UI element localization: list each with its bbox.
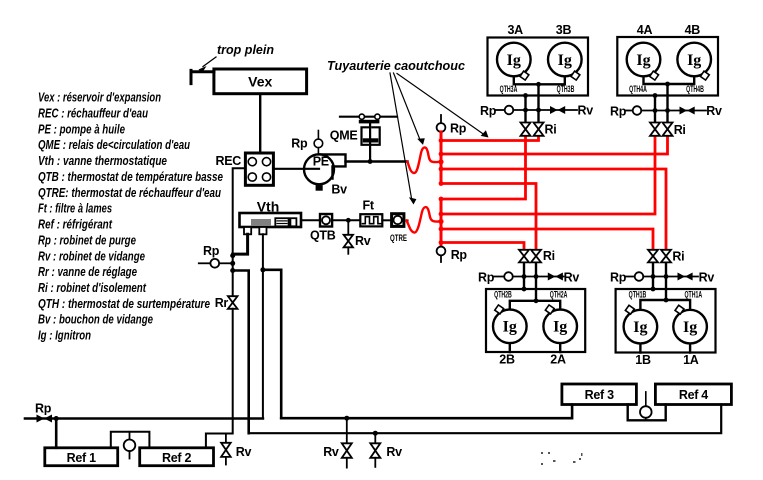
wire Vex to REC [259, 94, 261, 153]
valve Rv group 3 [539, 109, 578, 111]
svg-text:Rv: Rv [578, 104, 594, 118]
reservoir Vex [214, 69, 307, 94]
valve Rv group 4 [668, 110, 707, 112]
svg-text:Rv: Rv [323, 445, 339, 459]
wire REC left down [233, 168, 246, 296]
svg-text:Rp: Rp [291, 137, 308, 151]
ignitron 1A [673, 310, 707, 344]
ignitron 2A [543, 310, 577, 344]
svg-text:Ri: Ri [674, 123, 686, 137]
pump between Ref3 Ref4 [628, 405, 666, 421]
refrigerant Ref 3 [562, 384, 637, 405]
svg-text:QTB: QTB [310, 229, 336, 243]
pipe branch 8 [441, 243, 524, 250]
valve Ri group 2 left [519, 250, 529, 263]
svg-text:Ref 2: Ref 2 [162, 451, 191, 465]
node rail B Rv junction [344, 416, 349, 421]
thermostat QTRE [392, 214, 404, 227]
svg-text:Ig: Ig [633, 319, 647, 336]
refrigerant Ref 1 [45, 448, 118, 466]
rail B drain to Ref3 [281, 405, 572, 419]
wire drain jog A [233, 271, 249, 434]
svg-text:1A: 1A [683, 353, 699, 367]
wire QTB to Ft [332, 219, 360, 221]
wire Vth right drain [262, 234, 264, 418]
node Vth drain junction [260, 267, 265, 272]
refrigerant Ref 4 [655, 384, 731, 405]
svg-text:Ig: Ig [507, 52, 521, 69]
svg-text:Ig: Ig [558, 52, 572, 69]
valve Rv group 2 [536, 276, 564, 278]
svg-text:4B: 4B [685, 23, 701, 37]
ignitron group 1 box [616, 289, 716, 353]
ignitron group 2 box [486, 289, 585, 352]
valve Ri group 3 right [534, 123, 544, 136]
svg-text:QTH3B: QTH3B [557, 83, 575, 94]
svg-text:Rv: Rv [699, 271, 715, 285]
svg-text:Rp: Rp [450, 122, 467, 136]
svg-text:3A: 3A [508, 23, 524, 37]
node QME junction [368, 159, 373, 164]
refrigerant Ref 2 [140, 448, 214, 466]
watermark specks [541, 452, 583, 465]
ignitron 2B [493, 310, 527, 344]
pipe branch 4 [441, 184, 536, 250]
svg-text:Bv : bouchon de vidange: Bv : bouchon de vidange [38, 313, 153, 327]
svg-text:trop plein: trop plein [217, 42, 274, 57]
ignitron 1B [624, 310, 658, 344]
svg-text:Tuyauterie caoutchouc: Tuyauterie caoutchouc [327, 58, 466, 73]
svg-text:QTH4A: QTH4A [629, 83, 647, 94]
svg-text:Vth : vanne thermostatique: Vth : vanne thermostatique [38, 154, 167, 168]
svg-text:PE: PE [313, 155, 329, 169]
ignitron 3A [497, 43, 531, 77]
ignitron 3B [548, 43, 582, 77]
rail C drain to Ref4 [249, 405, 722, 434]
rail A left drain [25, 417, 263, 420]
svg-text:3B: 3B [556, 23, 572, 37]
svg-text:4A: 4A [637, 23, 653, 37]
svg-text:QTB : thermostat de températur: QTB : thermostat de température basse [38, 170, 223, 184]
svg-text:Rp: Rp [610, 104, 627, 118]
wire drain jog B [263, 270, 281, 418]
svg-text:QTH2A: QTH2A [550, 289, 568, 300]
wire Vth to QTB [301, 219, 320, 221]
node left column junctions [230, 253, 235, 258]
valve Ri group 1 left [648, 250, 658, 263]
svg-text:QTRE: thermostat de réchauffeu: QTRE: thermostat de réchauffeur d'eau [38, 186, 221, 200]
svg-text:QTH3A: QTH3A [500, 83, 518, 94]
svg-text:Rp: Rp [610, 271, 627, 285]
svg-text:QTH1B: QTH1B [629, 289, 647, 300]
svg-text:Rv: Rv [564, 271, 580, 285]
valve Ri group 1 right [661, 250, 671, 263]
valve Ri group 3 left [521, 123, 531, 136]
svg-text:Bv: Bv [331, 183, 347, 197]
svg-text:Vex: Vex [248, 74, 272, 90]
svg-text:Rp: Rp [451, 248, 468, 262]
svg-text:Ref 4: Ref 4 [679, 388, 708, 402]
svg-text:Vex : réservoir d'expansion: Vex : réservoir d'expansion [38, 91, 161, 105]
svg-text:Ri: Ri [543, 249, 555, 263]
pump PE [304, 154, 334, 184]
svg-text:Ig: Ig [553, 319, 567, 336]
wire PE to hose [346, 160, 408, 162]
pipe branch 7 [441, 229, 653, 250]
svg-text:Ig: Ig [503, 319, 517, 336]
pipe branch 1 [441, 136, 539, 141]
thermostat QTB [320, 214, 332, 227]
pipe branch 2 [441, 136, 668, 154]
wire REC to PE [273, 168, 319, 170]
valve Rv below QTB [347, 220, 349, 235]
node group 3 junctions [536, 82, 541, 87]
svg-text:2A: 2A [550, 353, 566, 367]
pipe branch 5 [441, 136, 526, 199]
hose lower rubber [407, 207, 442, 232]
arrow to red pipe top [397, 74, 484, 135]
hose upper rubber [408, 147, 442, 173]
node group 1 junctions [664, 298, 669, 303]
overflow pipe trop plein [191, 70, 214, 83]
svg-text:Rp: Rp [480, 104, 497, 118]
arrow to upper hose [394, 73, 421, 141]
svg-text:Ref : réfrigérant: Ref : réfrigérant [38, 218, 113, 232]
svg-text:QTH2B: QTH2B [494, 289, 512, 300]
valve Ri group 4 left [650, 123, 660, 136]
svg-text:QTH1A: QTH1A [684, 289, 702, 300]
pipe branch 6 [441, 136, 655, 214]
svg-text:Ig: Ig [683, 319, 697, 336]
svg-text:Ri: Ri [545, 123, 557, 137]
node group 2 junctions [534, 298, 539, 303]
svg-text:PE : pompe à huile: PE : pompe à huile [38, 122, 125, 136]
svg-text:Ft: Ft [363, 198, 375, 212]
svg-text:Ig: Ig [687, 52, 701, 69]
valve Ri group 4 right [663, 123, 673, 136]
svg-text:Ft : filtre à lames: Ft : filtre à lames [38, 202, 112, 216]
valve Rv at Ref2 [225, 434, 227, 443]
svg-text:Rv : robinet de vidange: Rv : robinet de vidange [38, 249, 145, 263]
wire group 1 internal [640, 262, 690, 352]
node rail A to Ref1 [54, 416, 59, 421]
ignitron group 4 box [617, 37, 718, 96]
svg-text:Ref 1: Ref 1 [67, 451, 96, 465]
svg-text:Ig: Ig [636, 52, 650, 69]
pipe branch 3 [441, 169, 666, 250]
wire Vth left drain [233, 234, 248, 254]
svg-text:REC: REC [216, 154, 242, 168]
node manifold junctions lower [438, 197, 443, 245]
svg-text:Rv: Rv [386, 445, 402, 459]
svg-text:QTH : thermostat de surtempéra: QTH : thermostat de surtempérature [38, 297, 210, 311]
svg-text:1B: 1B [635, 353, 651, 367]
svg-text:QTH4B: QTH4B [686, 83, 704, 94]
svg-text:2B: 2B [499, 353, 515, 367]
svg-text:QTRE: QTRE [390, 233, 407, 244]
svg-text:Rv: Rv [355, 234, 371, 248]
wire group 2 internal [510, 262, 560, 352]
svg-text:REC : réchauffeur d'eau: REC : réchauffeur d'eau [38, 107, 148, 121]
svg-text:Rp: Rp [203, 244, 220, 258]
node rail C Rv junction [373, 431, 378, 436]
ignitron group 3 box [488, 38, 589, 96]
pump between Ref1 Ref2 [111, 432, 150, 448]
wire Ft to QTRE [382, 219, 391, 221]
svg-text:Ref 3: Ref 3 [585, 388, 614, 402]
heater REC [245, 153, 273, 185]
svg-text:Rp : robinet de purge: Rp : robinet de purge [38, 233, 136, 247]
valve Rv group 1 [666, 276, 698, 278]
svg-text:Rp: Rp [35, 402, 52, 416]
svg-text:Rp: Rp [478, 271, 495, 285]
pipe manifold lower vertical [440, 199, 443, 247]
svg-text:Rr : vanne de réglage: Rr : vanne de réglage [38, 265, 137, 279]
wire main vertical to Ref2 [206, 309, 233, 448]
svg-text:Rv: Rv [236, 445, 252, 459]
svg-text:Ri: Ri [672, 250, 684, 264]
pipe manifold upper vertical [440, 132, 443, 184]
valve Ri group 2 right [531, 250, 541, 263]
wire Ref1 drop [55, 419, 58, 448]
wire group 3 internal [514, 76, 565, 122]
ignitron 4B [677, 43, 711, 77]
svg-text:Rr: Rr [215, 296, 229, 310]
svg-text:QME: QME [330, 128, 358, 142]
drain plug Bv [316, 185, 323, 191]
valve Rv center 2 [374, 433, 376, 443]
svg-text:QME : relais de<circulation d': QME : relais de<circulation d'eau [38, 138, 190, 152]
node group 4 junctions [665, 82, 670, 87]
svg-text:Rv: Rv [706, 104, 722, 118]
node QTB-Ft junction [346, 218, 351, 223]
arrow trop plein [203, 57, 216, 67]
ignitron 4A [627, 43, 661, 77]
wire QTRE to hose [404, 220, 408, 222]
node manifold junctions upper [438, 138, 443, 186]
wire group 4 internal [644, 76, 695, 122]
valve Rv center 1 [346, 418, 348, 443]
svg-text:Ri : robinet d'isolement: Ri : robinet d'isolement [38, 281, 147, 295]
svg-text:Ig : Ignitron: Ig : Ignitron [38, 329, 91, 343]
arrow to lower hose [390, 73, 412, 200]
